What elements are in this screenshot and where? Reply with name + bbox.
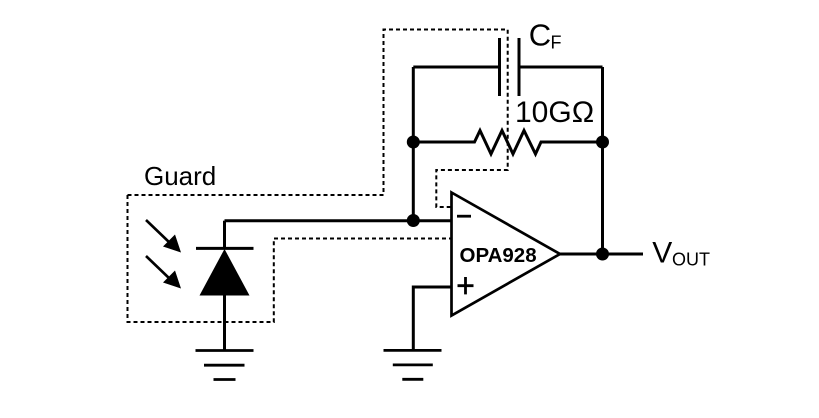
svg-text:Guard: Guard <box>144 161 216 191</box>
svg-text:V: V <box>652 236 672 269</box>
svg-text:F: F <box>551 33 562 53</box>
svg-text:C: C <box>529 18 551 53</box>
svg-text:OPA928: OPA928 <box>460 244 537 267</box>
svg-text:OUT: OUT <box>672 249 710 269</box>
svg-text:10GΩ: 10GΩ <box>515 96 594 129</box>
